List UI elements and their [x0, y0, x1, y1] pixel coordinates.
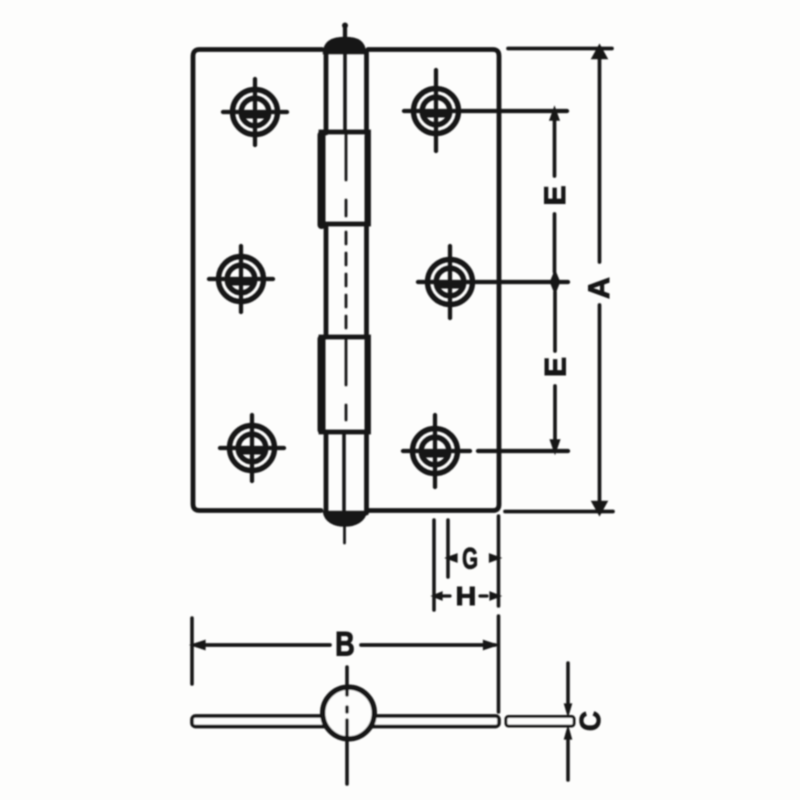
right edge extension line below hinge: [497, 516, 501, 712]
hole top-right: [414, 70, 459, 151]
label G: [462, 543, 478, 576]
dimension E line (upper): [550, 108, 559, 273]
leader line from hole mid-right: [418, 280, 568, 284]
shared arrow diamond at middle row: [551, 271, 560, 293]
label C: [573, 711, 606, 731]
extension line bottom for dimension A: [505, 510, 613, 514]
hole mid-right: [428, 246, 473, 318]
barrel knuckle segment 1: [326, 51, 367, 133]
svg-text:B: B: [335, 625, 355, 664]
pin tip top: [342, 23, 348, 41]
barrel knuckle segment 3: [326, 227, 367, 337]
barrel knuckle segment 4: [321, 337, 369, 432]
leader line from hole bottom-right: [403, 449, 568, 453]
extension line left for B: [190, 618, 194, 684]
extension line for G: [446, 520, 450, 577]
side view knuckle circle: [323, 687, 375, 739]
hole mid-left: [209, 246, 273, 312]
leader line from hole top-right: [404, 109, 567, 113]
side view bar right extension: [506, 717, 574, 727]
svg-text:E: E: [539, 185, 572, 205]
label H: [456, 581, 477, 610]
hinge left leaf outline: [193, 50, 322, 511]
label E (upper): [539, 185, 572, 205]
dimension A line: [592, 45, 607, 515]
barrel knuckle segment 2: [321, 132, 369, 225]
hole bottom-right: [413, 415, 458, 487]
hole bottom-left: [220, 415, 284, 481]
svg-text:A: A: [583, 277, 616, 299]
dimension G arrows: [446, 554, 501, 562]
barrel top dome: [324, 38, 365, 53]
hole top-left: [223, 79, 287, 145]
svg-text:E: E: [540, 357, 573, 377]
barrel knuckle segment 5: [326, 432, 367, 513]
pin tip bottom: [343, 514, 346, 543]
hinge right leaf outline: [368, 50, 499, 511]
dimension E line (lower): [551, 292, 560, 453]
dimension B line: [191, 641, 498, 650]
extension line top for dimension A: [508, 47, 612, 51]
dimension C line: [565, 663, 572, 780]
extension line from bottom-right hole for H: [432, 520, 436, 610]
side view center line: [345, 667, 349, 784]
dimension H arrows: [432, 592, 501, 600]
side view leaf bar: [192, 716, 499, 727]
svg-text:G: G: [462, 543, 478, 576]
label A: [583, 277, 616, 299]
label B: [335, 625, 355, 664]
label E (lower): [540, 357, 573, 377]
svg-text:H: H: [456, 581, 477, 610]
svg-text:C: C: [573, 711, 606, 731]
barrel bottom dome: [324, 512, 366, 526]
